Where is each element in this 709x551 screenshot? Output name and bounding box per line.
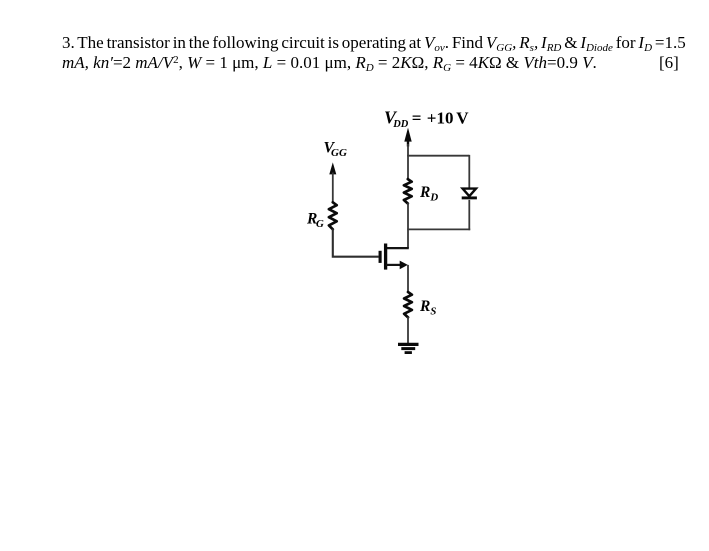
ground <box>398 344 419 352</box>
svg-text:RS: RS <box>419 298 436 318</box>
source stub with arrow <box>386 261 408 270</box>
marks [6] <box>659 53 679 73</box>
svg-text:VDD: VDD <box>384 107 409 130</box>
problem statement line 2 <box>62 53 597 73</box>
wire: right branch upper (rail to diode) <box>468 155 470 188</box>
wire: VDD stem down to top rail <box>407 144 409 156</box>
diode D1 <box>462 189 477 198</box>
resistor RG <box>329 202 337 229</box>
wire: top rail <box>407 155 469 157</box>
wire: top rail to RD <box>407 155 409 180</box>
VDD arrow <box>404 128 411 147</box>
svg-text:VGG: VGG <box>324 140 347 159</box>
wire: bottom rail down to drain <box>407 229 409 248</box>
svg-text:=+10V: =+10V <box>412 108 470 127</box>
resistor RD <box>404 179 412 203</box>
svg-text:RD: RD <box>419 184 438 204</box>
problem statement line 1 <box>62 33 686 53</box>
resistor RS <box>404 292 412 317</box>
wire: right branch lower (diode to bottom rail) <box>468 200 470 230</box>
wire: source down to RS <box>407 265 409 293</box>
wire: RG down and right to gate <box>333 229 379 257</box>
VDD supply label <box>384 107 469 130</box>
wire: RD to bottom rail <box>407 203 409 229</box>
wire: bottom rail <box>407 228 470 230</box>
wire: VGG stem to RG <box>332 173 334 204</box>
VGG arrow <box>329 162 336 174</box>
wire: drain stub <box>386 247 409 249</box>
transistor Q1 (NMOS) <box>380 244 386 270</box>
wire: RS to ground <box>407 317 409 345</box>
svg-text:RG: RG <box>306 211 324 231</box>
